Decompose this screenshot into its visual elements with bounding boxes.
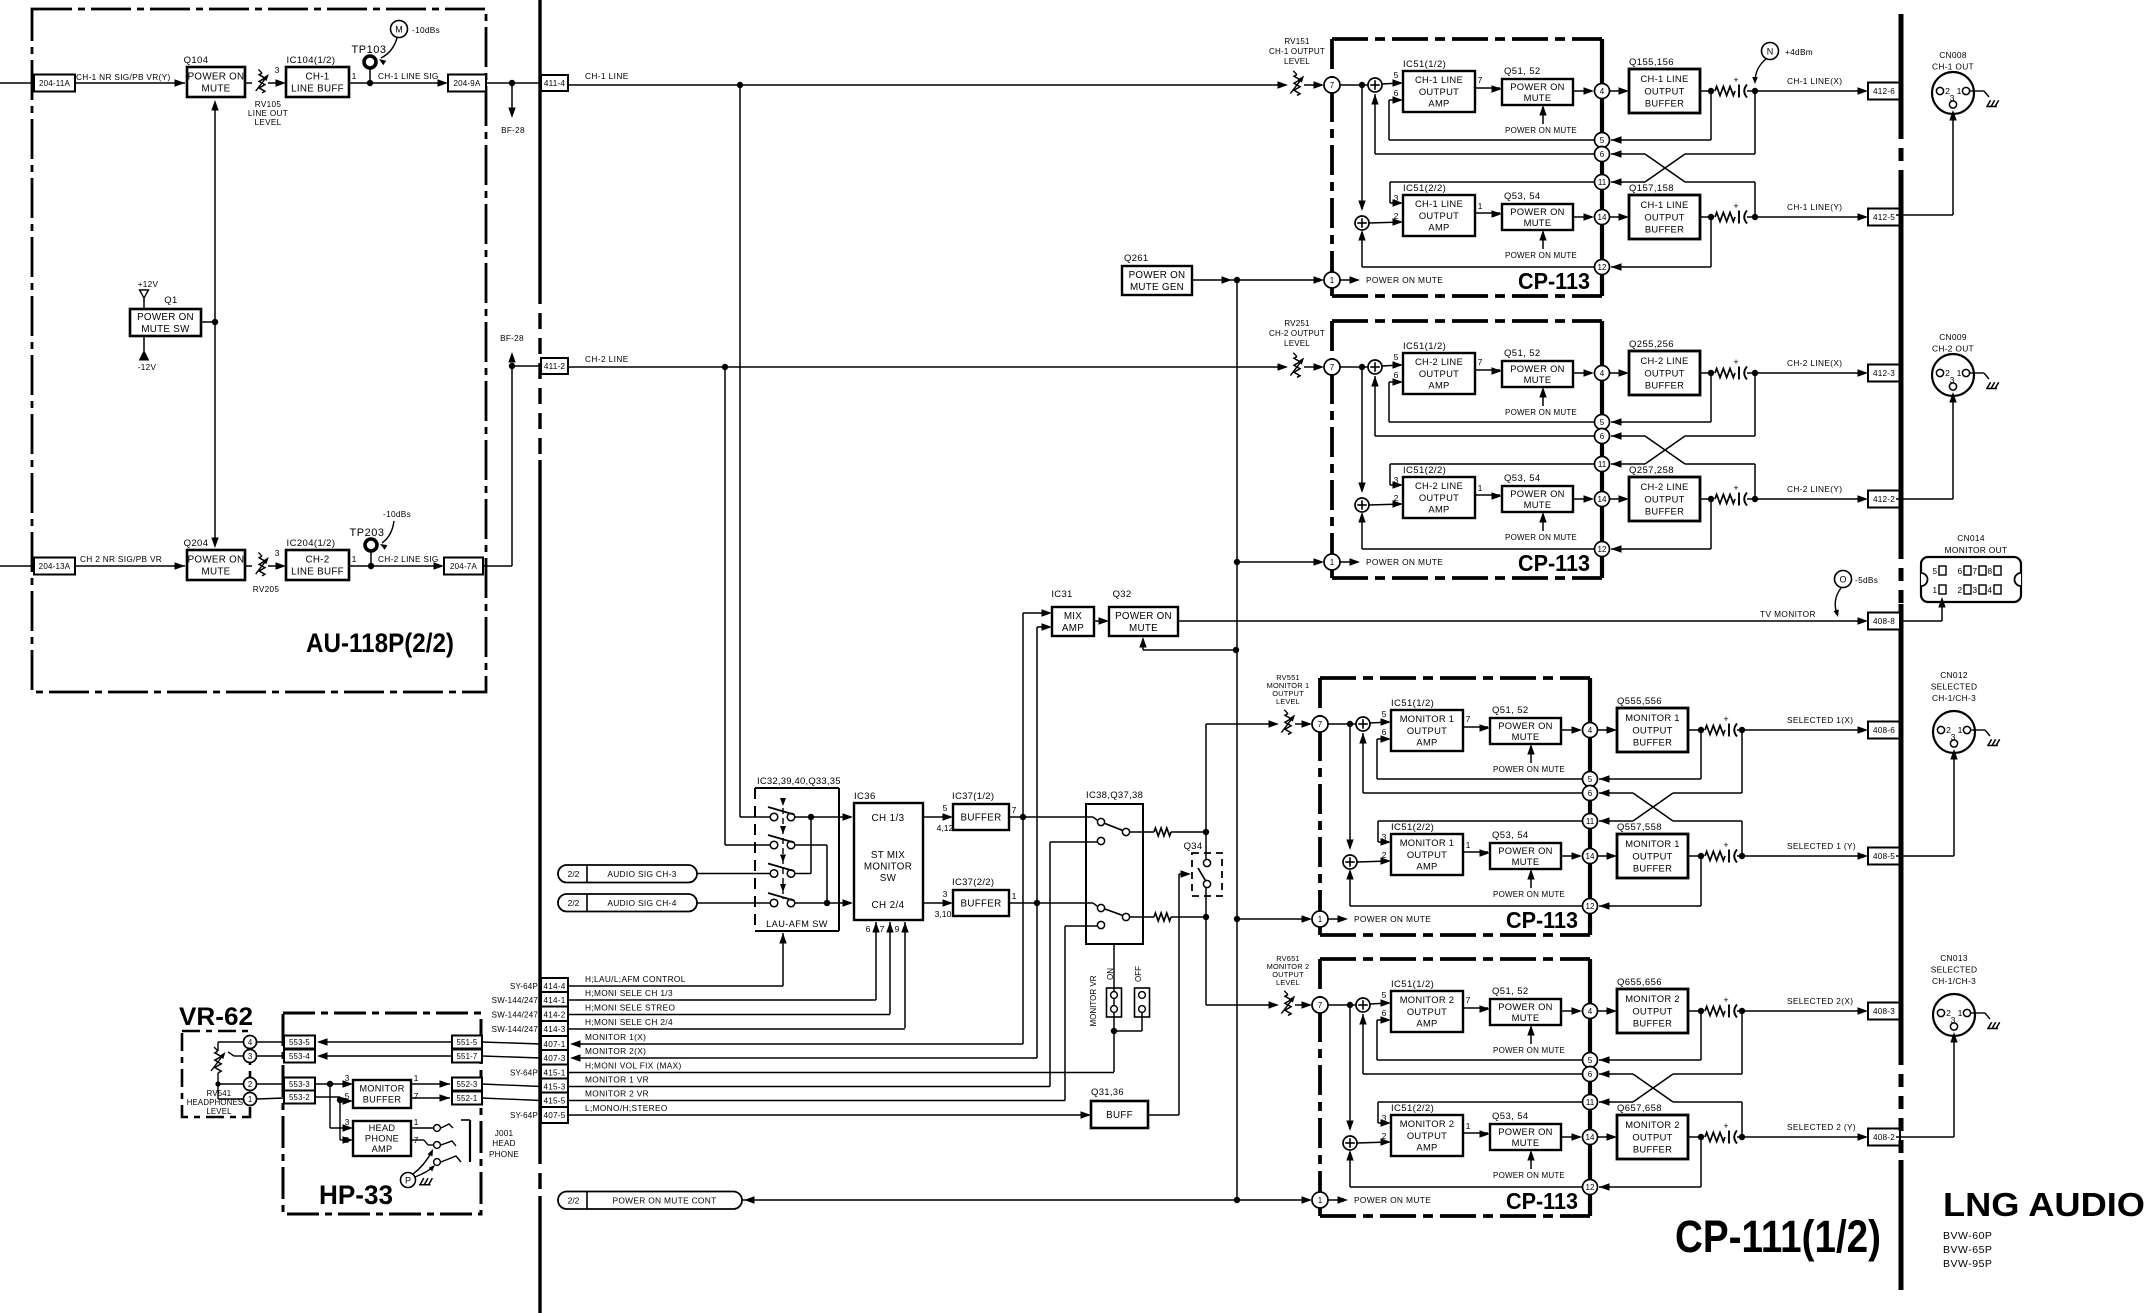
svg-text:407-5: 407-5 xyxy=(544,1111,566,1120)
wire buffer Y out xyxy=(1700,498,1711,500)
wire Q34 to nodes xyxy=(1205,832,1207,860)
svg-text:5: 5 xyxy=(1394,70,1399,80)
terminal 14 xyxy=(1595,210,1610,225)
wire Q261 to CP-113 CH-1 xyxy=(1192,279,1322,281)
switch S3 of LAU-AFM SW xyxy=(770,870,778,878)
connector 411-2 xyxy=(541,358,568,374)
svg-text:L;MONO/H;STEREO: L;MONO/H;STEREO xyxy=(585,1103,668,1113)
svg-text:SY-64P: SY-64P xyxy=(510,982,538,991)
svg-text:PHONE: PHONE xyxy=(489,1150,519,1159)
terminal 12 xyxy=(1583,1180,1598,1195)
CP-113 CH-2 block border xyxy=(1332,319,1602,323)
summing node 2 xyxy=(1355,498,1369,512)
wire sum1 to amp pin5 xyxy=(1382,365,1401,366)
wire RV151 to pin 7 xyxy=(1304,84,1322,86)
svg-text:408-5: 408-5 xyxy=(1873,852,1895,861)
wire input to RV551 xyxy=(1206,723,1277,725)
connector 553-2 xyxy=(284,1091,315,1104)
terminal 6 xyxy=(1583,1067,1598,1082)
transistor Q53,54 POWER ON MUTE xyxy=(1490,1124,1561,1150)
jack J001 barrel xyxy=(469,1120,471,1162)
svg-text:LEVEL: LEVEL xyxy=(206,1107,232,1116)
wire Q1 to -12V xyxy=(143,336,145,351)
svg-text:BUFFER: BUFFER xyxy=(961,812,1002,823)
svg-text:Q53, 54: Q53, 54 xyxy=(1504,191,1541,202)
terminal 11 xyxy=(1595,175,1610,190)
svg-text:POWER ON: POWER ON xyxy=(1498,845,1552,856)
wire 204-11A to Q104 xyxy=(75,82,185,84)
connector 407-3 xyxy=(541,1050,568,1066)
svg-text:ST MIX: ST MIX xyxy=(871,850,905,861)
terminal 6 xyxy=(1595,429,1610,444)
svg-text:MONITOR 1: MONITOR 1 xyxy=(1625,712,1680,723)
wire CN009 pin3 from Y row xyxy=(1896,498,1953,500)
svg-text:3: 3 xyxy=(1951,732,1956,742)
LAU-AFM SW block box xyxy=(755,787,839,789)
svg-text:3: 3 xyxy=(248,1052,252,1061)
wire 552-1 to 415-5 column xyxy=(482,1098,541,1101)
connector 415-5 xyxy=(541,1093,568,1109)
svg-text:4: 4 xyxy=(1588,726,1593,735)
svg-text:14: 14 xyxy=(1598,213,1607,222)
svg-text:IC38,Q37,38: IC38,Q37,38 xyxy=(1086,790,1143,801)
op-amp IC104(1/2) CH-1 LINE BUFF xyxy=(286,67,349,97)
wire Y feedback to t12 xyxy=(1710,499,1712,549)
svg-text:HP-33: HP-33 xyxy=(319,1180,393,1210)
wire Y to connector xyxy=(1737,855,1866,857)
svg-text:TV MONITOR: TV MONITOR xyxy=(1760,609,1816,619)
wire X to connector xyxy=(1737,729,1866,731)
transistor Q53,54 POWER ON MUTE xyxy=(1502,486,1573,512)
svg-text:14: 14 xyxy=(1586,852,1595,861)
wire RV541 bot to pin1 xyxy=(217,1084,219,1099)
svg-text:IC36: IC36 xyxy=(854,791,876,802)
terminal 12 xyxy=(1595,260,1610,275)
capacitor Y out xyxy=(1738,211,1740,224)
wire Y out cross to t6 xyxy=(1754,464,1756,499)
wire t11 to amp2 pin3 xyxy=(1390,463,1594,465)
wire CN008 pin3 from Y row xyxy=(1896,214,1953,216)
AU-118P(2/2) board border xyxy=(32,9,486,692)
wire pin7 to sum xyxy=(1340,366,1368,368)
svg-text:OUTPUT: OUTPUT xyxy=(1419,210,1459,221)
wire mute to CP-113 CH-2 xyxy=(1237,561,1322,563)
svg-text:4: 4 xyxy=(1987,586,1992,595)
svg-text:12: 12 xyxy=(1586,902,1595,911)
wire CN008 pin1 to ground xyxy=(1970,90,1984,92)
svg-text:11: 11 xyxy=(1598,178,1607,187)
transistor Q255,256 CH-2 LINE OUTPUT BUFFER xyxy=(1629,351,1700,395)
CN012 pin 2 xyxy=(1937,726,1944,733)
wire amp to mute xyxy=(1463,726,1488,728)
wire to mono switch bottom xyxy=(1171,916,1206,918)
junction pin7 node xyxy=(1347,721,1353,727)
arrow mute control into Q53 xyxy=(1542,514,1544,531)
svg-text:PHONE: PHONE xyxy=(365,1134,399,1144)
svg-text:BUFFER: BUFFER xyxy=(363,1095,402,1105)
terminal 1 xyxy=(1312,1192,1328,1208)
wire X to connector xyxy=(1747,372,1866,374)
svg-text:7: 7 xyxy=(1478,75,1483,85)
connector 412-3 xyxy=(1868,365,1900,382)
svg-text:MONITOR 2: MONITOR 2 xyxy=(1625,993,1680,1004)
wire mute to CP-113 MONITOR1 xyxy=(1237,918,1310,920)
capacitor X out xyxy=(1738,367,1740,380)
transistor Q34 mono switch box xyxy=(1192,853,1222,896)
svg-text:H;MONI SELE STREO: H;MONI SELE STREO xyxy=(585,1003,676,1013)
connector 553-3 xyxy=(284,1078,315,1091)
svg-text:MUTE: MUTE xyxy=(1129,623,1158,634)
wire CH-3 to switch xyxy=(697,873,770,875)
svg-text:2/2: 2/2 xyxy=(568,869,580,879)
svg-text:SELECTED 2 (Y): SELECTED 2 (Y) xyxy=(1787,1122,1856,1132)
junction X feedback xyxy=(1698,1008,1704,1014)
wire AFM CONTROL xyxy=(568,985,783,987)
wire RV541 top to pin4 xyxy=(217,1042,219,1051)
terminal 11 xyxy=(1595,457,1610,472)
svg-text:4: 4 xyxy=(248,1038,253,1047)
CN008 pin 3 xyxy=(1949,101,1956,108)
ground at CN013 xyxy=(1988,1022,1992,1028)
svg-text:MUTE: MUTE xyxy=(1524,92,1552,103)
svg-text:Q255,256: Q255,256 xyxy=(1629,339,1674,350)
svg-text:204-11A: 204-11A xyxy=(39,79,71,88)
svg-text:POWER ON MUTE: POWER ON MUTE xyxy=(1366,557,1443,567)
svg-text:6: 6 xyxy=(1382,727,1387,737)
svg-text:POWER ON MUTE: POWER ON MUTE xyxy=(1505,408,1577,417)
terminal 7 of MONITOR1 block xyxy=(1312,716,1328,732)
svg-text:411-4: 411-4 xyxy=(544,79,566,88)
svg-text:553-3: 553-3 xyxy=(289,1080,310,1089)
wire feedback t12 to sum2 xyxy=(1362,548,1594,550)
op-amp IC204(1/2) CH-2 LINE BUFF xyxy=(286,550,349,580)
junction Y feedback xyxy=(1708,496,1714,502)
junction to BF-28 xyxy=(509,80,515,86)
transistor Q157,158 CH-1 LINE OUTPUT BUFFER xyxy=(1629,195,1700,239)
wire X to connector xyxy=(1737,1010,1866,1012)
measure point N circle xyxy=(1762,43,1779,60)
wire sum1 to amp pin5 xyxy=(1382,83,1401,84)
potentiometer RV651 xyxy=(1285,995,1291,1016)
svg-text:LEVEL: LEVEL xyxy=(1284,339,1310,348)
svg-text:BUFF: BUFF xyxy=(1106,1110,1133,1121)
svg-text:CH-1 LINE: CH-1 LINE xyxy=(1640,73,1688,84)
svg-text:POWER ON MUTE: POWER ON MUTE xyxy=(1493,765,1565,774)
potentiometer RV105 xyxy=(259,73,265,93)
wire pin4 to 553-5 xyxy=(257,1041,285,1043)
terminal 14 xyxy=(1583,849,1598,864)
buffer Q31,36 BUFF xyxy=(1091,1101,1148,1128)
wire 204-9A to 411-4 xyxy=(486,82,541,84)
CN009 pin 3 xyxy=(1949,383,1956,390)
svg-text:IC204(1/2): IC204(1/2) xyxy=(287,538,336,549)
wire RV651 to pin 7 xyxy=(1295,1004,1310,1006)
arrow stub to BF-28 upper xyxy=(508,352,515,363)
svg-text:5: 5 xyxy=(345,1092,350,1101)
wire sum2 to amp2 pin2 xyxy=(1369,222,1401,223)
svg-text:BUFFER: BUFFER xyxy=(1645,223,1684,234)
potentiometer RV541 xyxy=(215,1051,221,1073)
summing node 1 xyxy=(1356,717,1370,731)
wire +12V to Q1 xyxy=(143,298,145,309)
svg-text:553-5: 553-5 xyxy=(289,1038,310,1047)
svg-text:CN008: CN008 xyxy=(1939,50,1967,60)
svg-text:IC51(2/2): IC51(2/2) xyxy=(1403,183,1446,194)
junction mute rail MONITOR1 xyxy=(1234,916,1240,922)
connector 204-9A xyxy=(448,75,486,92)
svg-text:551-7: 551-7 xyxy=(457,1052,478,1061)
svg-text:4: 4 xyxy=(1588,1007,1593,1016)
svg-text:POWER ON MUTE: POWER ON MUTE xyxy=(1505,533,1577,542)
terminal 5 xyxy=(1583,772,1598,787)
svg-text:BVW-60P: BVW-60P xyxy=(1943,1230,1992,1242)
terminal 5 xyxy=(1595,133,1610,148)
svg-text:MONITOR 2: MONITOR 2 xyxy=(1625,1119,1680,1130)
potentiometer RV251 xyxy=(1294,357,1300,378)
wire amp2 to mute2 xyxy=(1475,212,1500,214)
svg-text:OUTPUT: OUTPUT xyxy=(1632,1005,1672,1016)
wire monitor buffer to 552-3 xyxy=(411,1083,450,1085)
svg-text:2: 2 xyxy=(1957,586,1962,595)
svg-text:AMP: AMP xyxy=(372,1144,393,1154)
wire pin7 node down to sum2 xyxy=(1361,85,1363,209)
svg-text:CH-2 LINE: CH-2 LINE xyxy=(1415,480,1463,491)
svg-text:MONITOR VR: MONITOR VR xyxy=(1089,975,1098,1026)
svg-text:7: 7 xyxy=(1478,357,1483,367)
wire feedback t5 to amp pin6 xyxy=(1377,1059,1582,1061)
wire CN013 pin3 from Y row xyxy=(1896,1136,1954,1138)
connector 407-5 xyxy=(541,1107,568,1123)
junction at TP203 xyxy=(368,563,374,569)
resistor X out xyxy=(1715,369,1735,378)
svg-text:LINE BUFF: LINE BUFF xyxy=(291,83,344,94)
svg-text:TP103: TP103 xyxy=(352,44,387,56)
wire mute rail to sheet ref xyxy=(742,1199,1237,1201)
svg-text:415-1: 415-1 xyxy=(544,1068,566,1077)
wire X out cross to t11 xyxy=(1754,91,1756,154)
op-amp IC51(1/2) CH-1 LINE OUTPUT AMP xyxy=(1403,71,1475,112)
CN012 pin 1 xyxy=(1963,726,1970,733)
junction X feedback xyxy=(1708,88,1714,94)
wire t11 to amp2 pin3 xyxy=(1390,181,1594,183)
wire input to RV251 xyxy=(568,366,1286,368)
svg-text:BUFFER: BUFFER xyxy=(961,898,1002,909)
svg-text:Q53, 54: Q53, 54 xyxy=(1492,1111,1529,1122)
IC36 ST MIX MONITOR SW xyxy=(854,803,923,920)
wire 551-7 to 407-3 column xyxy=(482,1056,541,1058)
svg-text:SELECTED 2(X): SELECTED 2(X) xyxy=(1787,996,1853,1006)
svg-text:HEAD: HEAD xyxy=(369,1123,396,1133)
svg-text:1: 1 xyxy=(1318,1196,1323,1205)
svg-text:414-4: 414-4 xyxy=(544,982,566,991)
wire pin7 node down to sum2 xyxy=(1349,1005,1351,1129)
svg-text:CH-2 LINE: CH-2 LINE xyxy=(1640,481,1688,492)
svg-text:IC51(1/2): IC51(1/2) xyxy=(1391,979,1434,990)
wire 553-3 to monitor buffer xyxy=(315,1083,351,1085)
svg-text:5: 5 xyxy=(345,1136,350,1145)
svg-text:POWER ON MUTE: POWER ON MUTE xyxy=(1505,126,1577,135)
terminal 11 xyxy=(1583,814,1598,829)
svg-text:SW-144/247: SW-144/247 xyxy=(492,1011,539,1020)
ground at CN008 xyxy=(1987,100,1991,106)
svg-text:+: + xyxy=(1733,201,1738,211)
svg-text:MUTE: MUTE xyxy=(1524,217,1552,228)
wire buffer X out xyxy=(1688,1010,1701,1012)
svg-text:BUFFER: BUFFER xyxy=(1633,1143,1672,1154)
transistor Q261 POWER ON MUTE GEN xyxy=(1122,266,1192,295)
svg-text:CH-2 LINE: CH-2 LINE xyxy=(585,354,629,364)
wire Q1 output to mute column xyxy=(201,321,215,323)
arrow -10dBs to TP203 xyxy=(382,521,394,543)
svg-text:408-3: 408-3 xyxy=(1873,1007,1895,1016)
junction CH-1 to monitor switch xyxy=(737,82,743,88)
svg-text:RV151: RV151 xyxy=(1284,37,1310,46)
svg-text:CH-1 LINE: CH-1 LINE xyxy=(1415,198,1463,209)
junction pin7 node xyxy=(1347,1002,1353,1008)
svg-text:1: 1 xyxy=(1330,276,1335,285)
svg-text:IC51(2/2): IC51(2/2) xyxy=(1391,1103,1434,1114)
junction X aftercap xyxy=(1752,370,1758,376)
VR-62 pin 4 xyxy=(244,1036,257,1049)
wire mute2 to terminal 14 xyxy=(1561,1136,1580,1138)
wire X feedback to t5 xyxy=(1700,1011,1702,1060)
transistor Q53,54 POWER ON MUTE xyxy=(1502,204,1573,230)
terminal 1 xyxy=(1324,272,1340,288)
svg-text:408-2: 408-2 xyxy=(1873,1133,1895,1142)
svg-text:1: 1 xyxy=(352,554,357,564)
HP-33 block border xyxy=(283,1013,481,1214)
potentiometer RV551 xyxy=(1285,714,1291,735)
summing node 2 xyxy=(1343,1136,1357,1150)
wire pin1 to 553-2 xyxy=(257,1098,285,1099)
svg-text:7: 7 xyxy=(414,1092,419,1101)
wire MIX AMP to Q32 xyxy=(1094,620,1107,622)
wire Q104 to RV105 xyxy=(245,82,252,84)
wire CN013 pin1 to ground xyxy=(1971,1012,1985,1014)
wire buffer X out xyxy=(1700,90,1711,92)
amplifier MONITOR BUFFER xyxy=(353,1080,411,1108)
svg-text:CP-113: CP-113 xyxy=(1506,1188,1578,1214)
junction X feedback xyxy=(1708,370,1714,376)
arrow mute control into Q51 xyxy=(1530,1027,1532,1044)
transistor Q1 POWER ON MUTE SW xyxy=(130,309,201,336)
svg-text:551-5: 551-5 xyxy=(457,1038,478,1047)
link ON box xyxy=(1107,988,1122,1017)
junction X aftercap xyxy=(1752,88,1758,94)
svg-text:3: 3 xyxy=(1394,193,1399,203)
svg-text:1: 1 xyxy=(1478,483,1483,493)
wire OFF link to junction xyxy=(1141,1012,1143,1031)
svg-text:Q557,558: Q557,558 xyxy=(1617,822,1662,833)
terminal 4 xyxy=(1583,1004,1598,1019)
connector 414-3 xyxy=(541,1021,568,1037)
wire CN009 pin1 to ground xyxy=(1970,372,1984,374)
transistor Q155,156 CH-1 LINE OUTPUT BUFFER xyxy=(1629,69,1700,113)
svg-text:3: 3 xyxy=(1972,586,1977,595)
svg-text:CP-113: CP-113 xyxy=(1506,907,1578,933)
svg-text:M: M xyxy=(395,24,403,34)
sheet ref AUDIO SIG CH-4 xyxy=(558,894,697,912)
svg-text:12: 12 xyxy=(1586,1183,1595,1192)
wire feedback t6 to sum1 xyxy=(1375,435,1594,437)
connector 551-7 xyxy=(452,1050,482,1063)
svg-text:9: 9 xyxy=(895,924,900,934)
switch S4 of LAU-AFM SW xyxy=(770,899,778,907)
arrow M to TP103 xyxy=(381,38,397,58)
svg-text:IC37(1/2): IC37(1/2) xyxy=(952,791,994,802)
svg-text:408-8: 408-8 xyxy=(1873,617,1895,626)
junction Y aftercap xyxy=(1739,853,1745,859)
jack J001 contacts xyxy=(434,1125,441,1132)
svg-text:OFF: OFF xyxy=(1134,966,1143,982)
svg-text:POWER ON: POWER ON xyxy=(1498,1126,1552,1137)
potentiometer RV151 xyxy=(1294,75,1300,96)
wire t14 to Q157,158 buffer xyxy=(1610,216,1627,218)
svg-text:+: + xyxy=(1723,995,1728,1005)
svg-text:Q257,258: Q257,258 xyxy=(1629,465,1674,476)
svg-text:CH-2 LINE: CH-2 LINE xyxy=(1415,356,1463,367)
svg-text:1: 1 xyxy=(414,1074,419,1083)
wire t14 to Q657,658 buffer xyxy=(1598,1136,1615,1138)
svg-text:POWER ON: POWER ON xyxy=(1115,611,1172,622)
svg-text:+: + xyxy=(1733,357,1738,367)
terminal 4 xyxy=(1595,366,1610,381)
svg-text:CP-113: CP-113 xyxy=(1518,550,1590,576)
connector 204-11A xyxy=(34,75,75,92)
connector 412-2 xyxy=(1868,491,1900,508)
op-amp IC51(1/2) MONITOR 2 OUTPUT AMP xyxy=(1391,991,1463,1032)
wire to mono switch top xyxy=(1171,831,1206,833)
connector 408-2 xyxy=(1868,1129,1900,1146)
svg-text:OUTPUT: OUTPUT xyxy=(1419,86,1459,97)
svg-text:POWER ON MUTE: POWER ON MUTE xyxy=(1493,890,1565,899)
svg-text:CH-1: CH-1 xyxy=(305,71,329,82)
wire feedback t5 to amp pin6 xyxy=(1389,139,1594,141)
connector 552-1 xyxy=(452,1092,482,1105)
svg-text:POWER ON: POWER ON xyxy=(1498,1001,1552,1012)
wire RV551 to pin 7 xyxy=(1295,723,1310,725)
op-amp IC51(2/2) CH-2 LINE OUTPUT AMP xyxy=(1403,477,1475,518)
svg-text:Q51, 52: Q51, 52 xyxy=(1504,348,1541,359)
wire AFM control to LAU-AFM SW xyxy=(782,933,784,986)
svg-text:+: + xyxy=(1723,1121,1728,1131)
wire terminal1 internal xyxy=(1328,918,1346,920)
resistor X out xyxy=(1705,1007,1725,1016)
svg-text:OUTPUT: OUTPUT xyxy=(1407,1130,1447,1141)
wire Y out cross to t6 xyxy=(1754,182,1756,217)
svg-text:LINE BUFF: LINE BUFF xyxy=(291,566,344,577)
connector 411-4 xyxy=(541,75,568,91)
wire RV541 wiper to pin3 xyxy=(228,1052,234,1056)
svg-text:12: 12 xyxy=(1598,545,1607,554)
junction at TP103 xyxy=(367,80,373,86)
wire mute2 to terminal 14 xyxy=(1573,498,1592,500)
wire mute to terminal 4 xyxy=(1573,372,1592,374)
wire feedback t6 to sum1 xyxy=(1375,153,1594,155)
wire pin7 node down to sum2 xyxy=(1361,367,1363,491)
wire monitor2 to MIX AMP xyxy=(1036,627,1038,903)
buffer IC37(1/2) xyxy=(953,804,1009,830)
svg-text:+: + xyxy=(1723,840,1728,850)
arrow P to jack contact xyxy=(413,1151,432,1174)
svg-text:CH-2: CH-2 xyxy=(305,554,329,565)
connector 552-3 xyxy=(452,1078,482,1091)
svg-text:OUTPUT: OUTPUT xyxy=(1632,724,1672,735)
wire amp to mute xyxy=(1475,87,1500,89)
svg-text:BVW-95P: BVW-95P xyxy=(1943,1258,1992,1270)
junction X aftercap xyxy=(1739,1008,1745,1014)
summing node 1 xyxy=(1356,998,1370,1012)
